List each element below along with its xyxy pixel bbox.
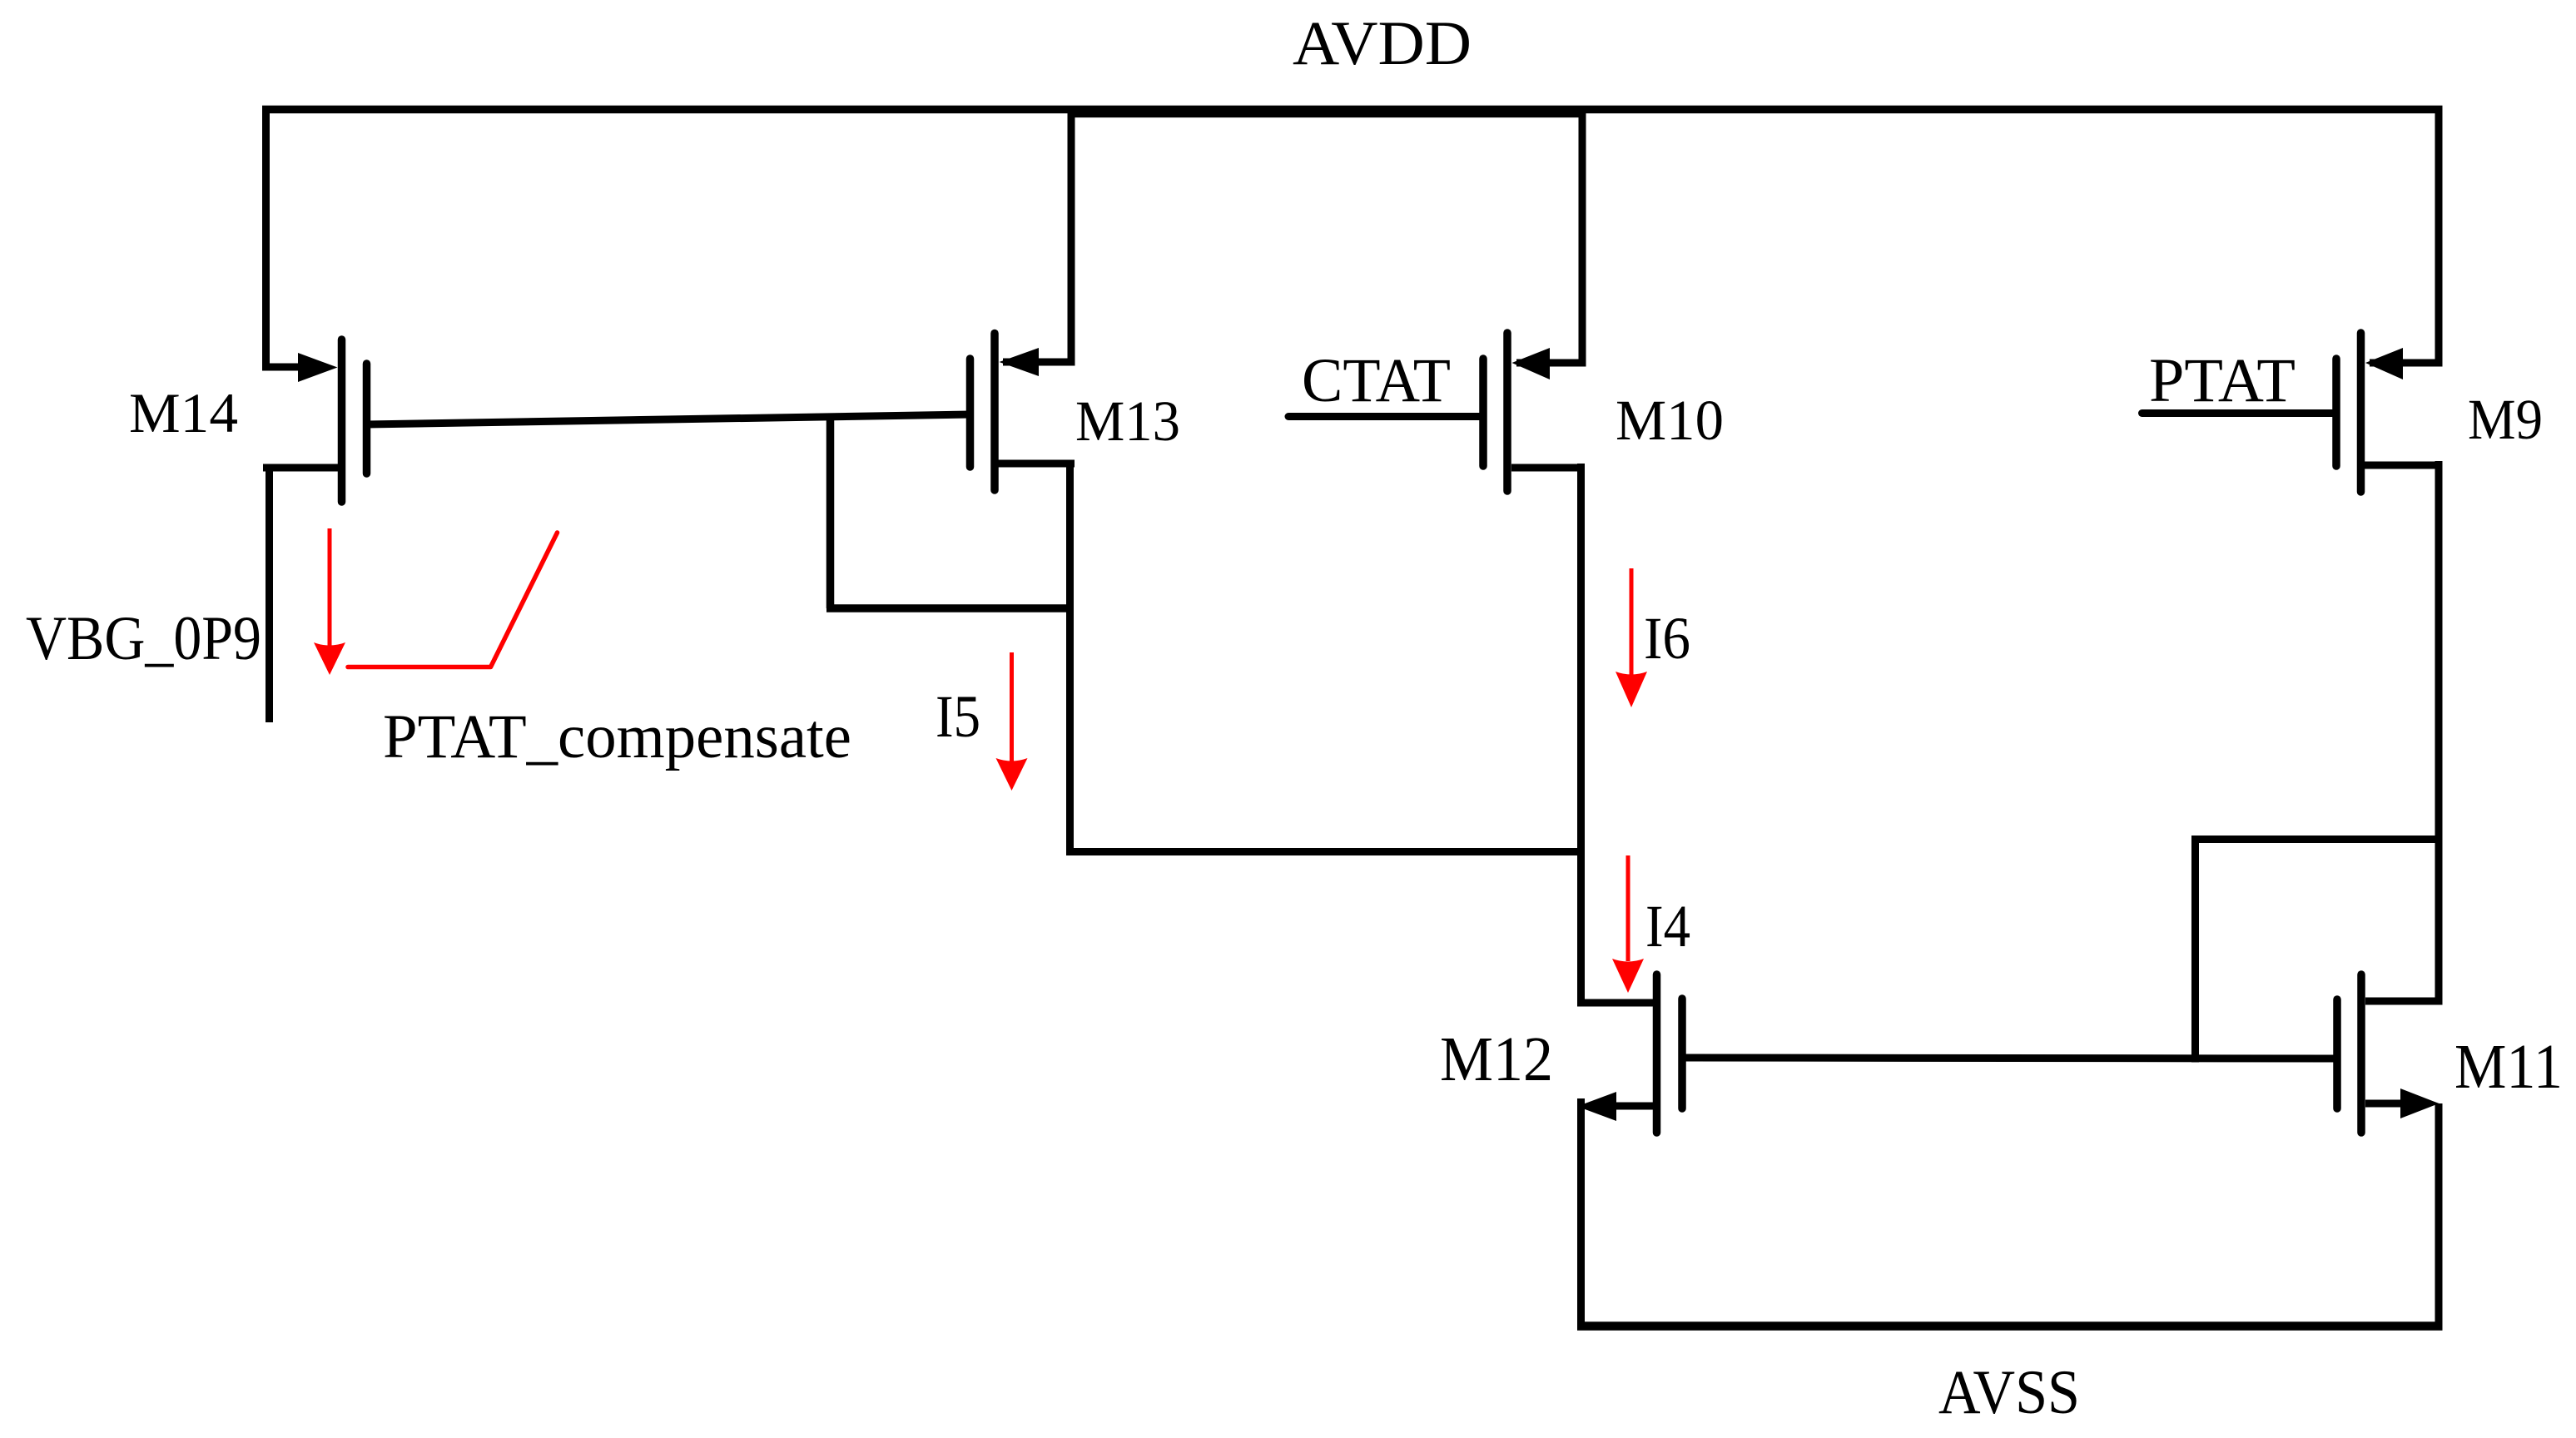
transistor M11 (NMOS, mirrored) [2337,974,2443,1133]
wire M12 gate to M11 gate [1682,1058,2337,1059]
wire M10 drain to M12 drain [1577,464,1585,1007]
current arrow at VBG_0P9 (red) [314,528,345,675]
annotation PTAT compensation curve (red) [348,533,558,667]
svg-text:VBG_0P9: VBG_0P9 [26,604,261,673]
wire AVDD to M13 source [1003,106,1075,362]
wire AVDD to M10 source [1516,106,1586,363]
svg-text:I4: I4 [1645,893,1690,959]
wire M12 source to AVSS [1577,1098,1585,1330]
transistor M14 (PMOS) [263,340,367,502]
wire AVDD to M14 source [262,106,301,367]
current arrow I4 (red) [1612,855,1644,993]
svg-text:I6: I6 [1644,605,1690,672]
transistor M9 (PMOS, mirrored) [2336,333,2443,492]
wire M9 drain to M11 drain [2435,461,2443,1005]
svg-text:AVDD: AVDD [1293,9,1472,78]
svg-text:PTAT: PTAT [2149,346,2296,415]
svg-text:PTAT_compensate: PTAT_compensate [383,702,851,771]
svg-text:M13: M13 [1075,389,1180,453]
svg-text:M14: M14 [129,381,238,444]
current arrow I5 (red) [996,652,1028,791]
transistor M10 (PMOS, mirrored) [1483,333,1585,491]
svg-text:AVSS: AVSS [1938,1358,2080,1427]
transistor M12 (NMOS) [1577,974,1682,1133]
wire M13 gate-drain tie [826,414,1074,608]
svg-text:M12: M12 [1440,1024,1553,1094]
transistor M13 (PMOS, mirrored) [970,334,1075,491]
wire M14 gate to M13 gate [367,414,970,424]
AVDD power rail [262,106,2443,114]
svg-text:CTAT: CTAT [1302,346,1451,415]
wire AVDD to M9 source [2370,106,2443,363]
wire CTAT gate lead [1288,413,1483,420]
svg-text:I5: I5 [936,683,980,750]
current arrow I6 (red) [1616,568,1647,707]
svg-text:M11: M11 [2454,1032,2563,1102]
svg-text:M10: M10 [1616,389,1724,452]
wire M11 source to AVSS [2435,1103,2443,1330]
wire PTAT gate lead [2142,409,2337,417]
wire M13 drain [1066,460,1074,852]
wire M14 drain, VBG_0P9 node [266,464,273,722]
wire M13 drain to M12 drain node [1066,848,1584,855]
wire M9 drain to M11 and M12 gates [2191,836,2443,1063]
AVSS ground rail [1577,1321,2443,1331]
svg-text:M9: M9 [2468,388,2543,451]
